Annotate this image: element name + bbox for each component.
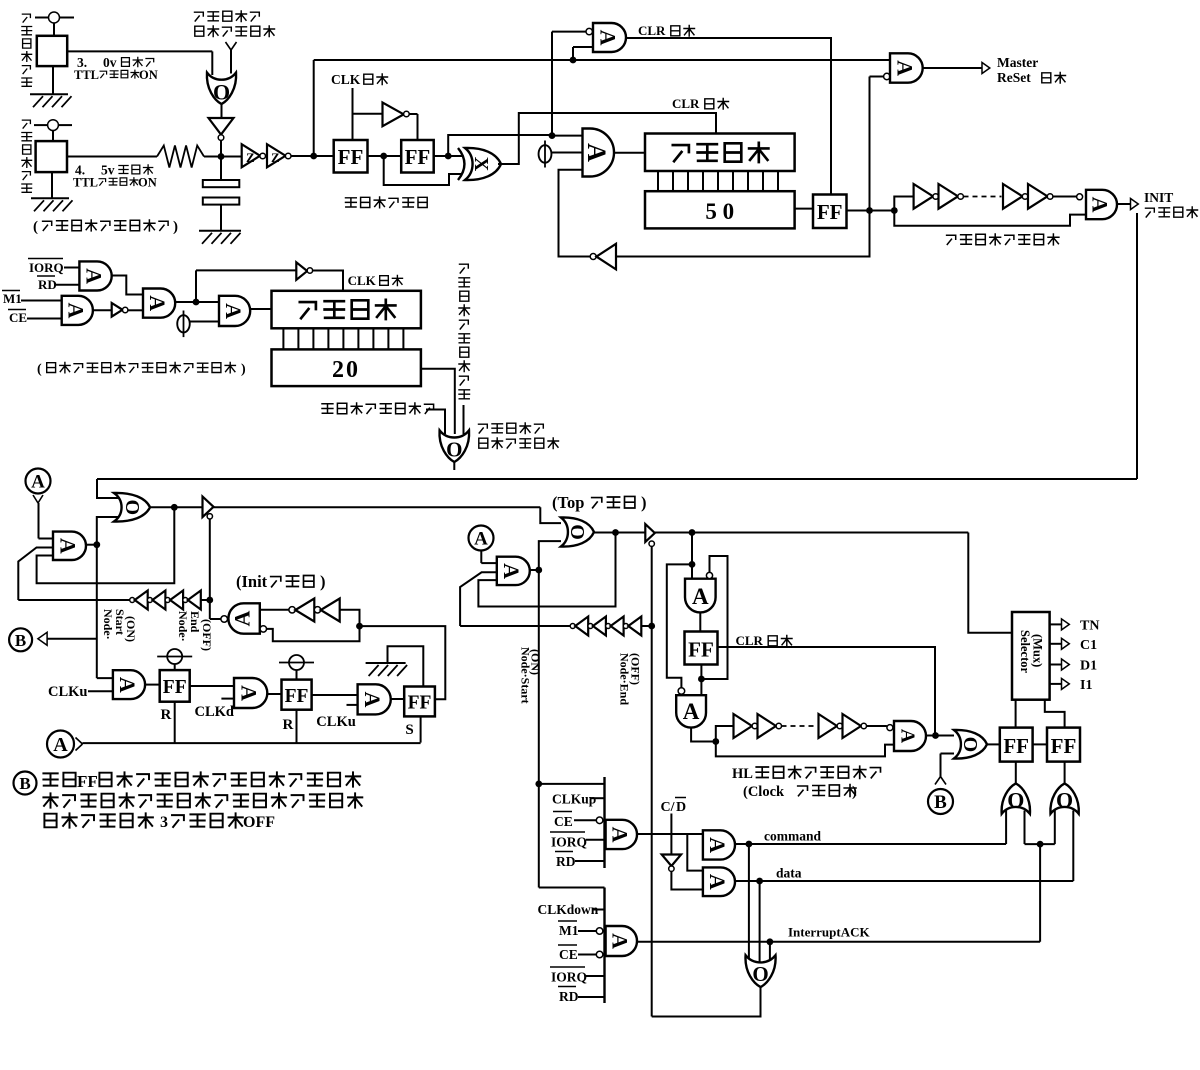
tri-state buffer G29 (end node driver) <box>645 524 655 542</box>
counter box 20 lower <box>272 349 421 386</box>
label system reset signal (top) <box>195 11 260 22</box>
buffer chain B13-B16 (HL delay) <box>734 714 753 738</box>
flip-flop E5 <box>282 680 312 710</box>
xor-gate G6 change detect <box>465 148 501 180</box>
svg-text:A: A <box>705 837 730 853</box>
wire G18 input2 from buffer chain <box>18 548 53 601</box>
wire E5 R to A rail <box>296 710 298 743</box>
and-gate G18 start latch <box>53 532 86 560</box>
svg-text:5v: 5v <box>101 163 115 178</box>
svg-text:A: A <box>499 563 524 579</box>
wire OR input tie junction <box>1025 843 1055 845</box>
wire start driver to top OR input1 <box>540 507 561 523</box>
svg-text:TTL: TTL <box>73 176 98 190</box>
flip-flop E7 <box>685 632 718 665</box>
wire vertical x552 to AND input <box>551 32 553 136</box>
buffer G15 (CLK out) <box>296 262 307 280</box>
svg-text:Node·: Node· <box>101 609 115 640</box>
and-gate G27 top latch <box>497 557 530 585</box>
wire counter 20 output to OR G17 <box>421 369 455 434</box>
wire G40 output to end-node line <box>652 987 761 1016</box>
wire E6 S to A rail <box>420 716 422 742</box>
node B note circle <box>14 772 37 795</box>
capacitor C1 plates <box>220 157 222 181</box>
wire G7 input1 <box>552 135 583 137</box>
svg-text:C/: C/ <box>661 800 676 815</box>
wire node up to CLR nand rail <box>313 60 315 156</box>
wire G17 output <box>453 462 455 470</box>
svg-text:O: O <box>566 524 588 540</box>
wire E2 output up to AND G7 input <box>448 135 552 156</box>
and-gate G32 HL output <box>894 721 926 751</box>
svg-text:A: A <box>683 699 700 724</box>
svg-text:(OFF): (OFF) <box>629 653 643 685</box>
counter ticks <box>658 171 778 191</box>
note text line2 <box>43 793 362 807</box>
selector box (Mux) <box>1012 612 1050 700</box>
svg-text:CLR: CLR <box>672 96 700 111</box>
or-gate G34 (up) command set <box>1002 783 1030 813</box>
svg-text:HL: HL <box>732 766 753 782</box>
wire ground to FF E6 top <box>388 646 424 686</box>
ground comparator U2 <box>51 172 53 198</box>
svg-text:5 0: 5 0 <box>705 199 734 224</box>
preset circle FF E4 <box>167 649 182 664</box>
svg-text:A: A <box>237 685 262 701</box>
svg-text:CLK: CLK <box>331 72 361 87</box>
label voltage abnormal reset <box>322 403 434 414</box>
svg-text:X: X <box>470 157 492 172</box>
or-gate G40 (down) busy <box>745 955 775 987</box>
svg-text:D1: D1 <box>1080 659 1097 674</box>
svg-text:CLKup: CLKup <box>552 792 596 807</box>
svg-text:O: O <box>121 500 143 516</box>
inverter G42 feedback (left) <box>590 254 596 260</box>
svg-text:S: S <box>405 722 413 738</box>
inverter pair G22 G23 (init) <box>260 609 289 611</box>
svg-text:A: A <box>582 143 611 162</box>
svg-text:(Init: (Init <box>236 572 268 591</box>
buffer G3 Z-type 1 <box>242 144 260 167</box>
wire inverters to init junction <box>340 610 360 626</box>
flip-flop E3 <box>813 195 847 229</box>
wire E5 to and-gate G26 <box>312 694 358 696</box>
wire branch strobe to data gate <box>687 834 703 871</box>
svg-text:command: command <box>764 829 821 844</box>
wire G27 input2 from end chain <box>460 572 497 626</box>
wire G14 output junction <box>175 301 219 303</box>
wire G27 output junction <box>530 569 539 571</box>
svg-text:FF: FF <box>338 145 364 169</box>
label change detect circuit <box>346 197 428 208</box>
svg-text:IORQ: IORQ <box>551 835 587 850</box>
svg-text:Master: Master <box>997 55 1038 70</box>
svg-text:A: A <box>893 60 918 76</box>
wire init junction to FF E6 right side <box>360 626 446 699</box>
svg-text:INIT: INIT <box>1144 190 1173 205</box>
resistor R1 <box>157 146 204 168</box>
flip-flop E4 <box>160 670 190 702</box>
svg-text:(OFF): (OFF) <box>200 619 214 651</box>
svg-text:A: A <box>1088 197 1113 213</box>
svg-text:CLR: CLR <box>638 23 666 38</box>
svg-text:ON: ON <box>138 176 157 190</box>
svg-text:M1: M1 <box>3 291 22 306</box>
node A connector (top left) <box>26 469 51 494</box>
wire G29 output to HL section <box>655 532 969 534</box>
svg-text:A: A <box>221 303 246 319</box>
comparator U2 box <box>36 141 67 172</box>
svg-text:(Top: (Top <box>552 493 584 512</box>
wire E3 out up to master gate bubble <box>869 77 871 211</box>
input connector system reset <box>226 42 232 50</box>
or-gate G17 system reset generator <box>439 430 469 462</box>
wire G21 output to end-node line <box>210 618 221 620</box>
wire E4 to and-gate G25 <box>190 685 234 687</box>
label one-shot circuit <box>947 234 1059 245</box>
ground capacitor C1 <box>220 205 222 231</box>
svg-text:R: R <box>283 717 294 733</box>
nand-gate G8 CLR generator <box>593 23 626 52</box>
wire E3 output to inverter G42 <box>616 211 870 257</box>
svg-text:I1: I1 <box>1080 678 1092 693</box>
svg-text:CLKd: CLKd <box>195 704 235 720</box>
svg-text:FF: FF <box>77 772 98 791</box>
or-gate G28 top node <box>561 517 594 546</box>
wire one-shot feedback <box>894 211 1086 226</box>
wire main rail y60 <box>314 59 890 61</box>
and-gate G41 interrupt ack <box>606 926 637 956</box>
svg-text:RD: RD <box>38 277 57 292</box>
svg-text:R: R <box>161 707 172 723</box>
wire interruptACK down to OR G40 <box>769 942 771 963</box>
svg-text:FF: FF <box>405 145 431 169</box>
label command reset signal (vertical) <box>459 264 470 399</box>
svg-text:A: A <box>229 610 254 626</box>
selector output D1 <box>1050 664 1062 666</box>
svg-text:FF: FF <box>688 638 714 662</box>
comparator U2 input terminal circle <box>48 120 59 131</box>
and-gate G24 <box>113 670 145 699</box>
counter box 50 lower <box>645 191 795 228</box>
comparator U1 input terminal circle <box>49 12 60 23</box>
wire resistor to node <box>204 156 221 158</box>
wire G29 enable long line down <box>651 546 653 1016</box>
inverter chain B9-B12 (end node) <box>460 625 570 627</box>
wire G16 to counter 20 <box>250 308 271 310</box>
svg-text:A: A <box>53 734 68 756</box>
counter box 20 upper <box>272 291 421 329</box>
wire start-node into strobe rails <box>535 781 542 788</box>
and-gate G36 command strobe <box>606 820 637 849</box>
wire G20 enable down to end-node line <box>209 519 211 600</box>
wire E7 CLR output <box>718 647 936 735</box>
svg-text:A: A <box>474 529 488 550</box>
svg-text:CLKu: CLKu <box>48 684 88 700</box>
node A connector (top node) <box>469 526 494 551</box>
selector output I1 <box>1050 683 1062 685</box>
wire selector to FF E9 clock <box>1045 700 1065 728</box>
svg-text:O: O <box>446 438 462 462</box>
flip-flop E8 command mode <box>1000 728 1033 762</box>
phi symbol (terminal) <box>183 311 185 338</box>
wire junction down to B arrow and CLKu gate <box>96 545 98 678</box>
wire CLR signal to FF E3 top <box>626 38 831 195</box>
svg-text:CLR: CLR <box>736 633 764 648</box>
inverter G5 (CLK delay) <box>383 103 404 127</box>
wire junction to HL chain <box>716 726 734 742</box>
or-gate G35 (up) data set <box>1050 783 1078 813</box>
flip-flop E2 <box>401 140 434 173</box>
wire B arrow to start line <box>47 638 97 640</box>
flip-flop E6 <box>404 687 435 717</box>
svg-text:Selector: Selector <box>1018 630 1032 673</box>
wire A to and-gate G27 <box>480 551 482 564</box>
wire G35 output to E9 <box>1064 762 1066 784</box>
note text line3 <box>44 813 153 827</box>
wire G37 to data gate <box>671 871 703 889</box>
wire A to and-gate G18 <box>38 503 40 539</box>
wire selector to FF E8 clock <box>1015 700 1017 728</box>
note text line1 <box>43 773 75 787</box>
wire A rail <box>83 742 421 744</box>
svg-text:): ) <box>852 784 857 800</box>
wire nand G8 input2 from rail <box>572 47 574 60</box>
svg-text:(ON): (ON) <box>529 649 543 675</box>
svg-text:3: 3 <box>160 814 168 831</box>
svg-text:A: A <box>596 30 621 46</box>
wire G32 output junction <box>926 735 954 737</box>
wire comparator U2 output <box>67 156 157 158</box>
wire G12 to inverter G13 <box>93 309 112 311</box>
svg-text:O: O <box>752 962 768 986</box>
and-gate G14 <box>143 289 175 318</box>
wire nand G8 input1 from node line <box>552 31 586 33</box>
svg-text:(: ( <box>33 219 38 235</box>
svg-text:): ) <box>641 493 647 512</box>
and-gate G38 command <box>703 830 735 859</box>
and-gate G16 <box>219 296 250 326</box>
svg-text:20: 20 <box>332 357 360 383</box>
svg-text:O: O <box>959 737 981 753</box>
wire G33 to FF E8 <box>987 743 1000 745</box>
svg-text:FF: FF <box>285 686 309 707</box>
svg-text:FF: FF <box>1003 734 1029 758</box>
svg-text:data: data <box>776 866 802 881</box>
buffer G4 Z-type 2 <box>267 144 286 167</box>
svg-text:): ) <box>241 362 246 377</box>
wire junction up to CLK buffer G15 <box>195 270 197 302</box>
wire INIT down to bottom rail <box>1136 213 1138 479</box>
wire voltage abnormal to OR G17 <box>426 410 445 435</box>
svg-text:(Clock: (Clock <box>743 784 785 800</box>
svg-text:A: A <box>705 874 730 890</box>
label system reset signal (mid) <box>479 423 544 434</box>
wire to FF E1 with junction <box>291 155 334 157</box>
wire G11 output to G14 <box>112 276 143 295</box>
wire G18 input3 feedback loop <box>37 507 175 583</box>
and-gate G7 counter enable <box>583 129 615 177</box>
wire E4 R to A rail <box>174 702 176 743</box>
svg-text:D: D <box>676 800 686 815</box>
or-gate G33 <box>954 730 987 759</box>
or-gate G1 system reset (down) <box>207 73 236 105</box>
wire G30 bubble input from right loop <box>701 556 727 679</box>
wire E2 output to XOR <box>434 155 462 157</box>
wire junction down to CLKup groups (start node line) <box>538 570 540 784</box>
one-shot buffer chain B1-B4 <box>894 197 913 211</box>
or-gate G19 <box>114 493 150 522</box>
input rail upper group <box>603 777 605 868</box>
node power-on junction <box>218 153 225 160</box>
and-gate G26 <box>358 684 391 714</box>
wire G34 inputs <box>1005 811 1007 845</box>
svg-text:CLKdown: CLKdown <box>538 902 599 917</box>
wire command down to OR G40 <box>748 844 750 962</box>
comparator U1 label (vertical text) <box>22 14 32 86</box>
svg-text:A: A <box>115 677 140 693</box>
svg-text:FF: FF <box>408 693 432 714</box>
wire G7 input3 from one-shot inverter <box>559 170 591 257</box>
wire comparator U1 output to OR G1 <box>67 50 212 52</box>
svg-text:OFF: OFF <box>243 814 275 831</box>
inverter chain B5-B8 (start node) <box>18 599 130 601</box>
svg-text:B: B <box>15 631 26 650</box>
counter box 50 upper <box>645 134 795 172</box>
wire junction feedback to G32 <box>716 742 894 757</box>
wire junction to XOR lower input <box>384 156 462 185</box>
svg-text:B: B <box>934 792 947 813</box>
wire G35 inputs <box>1054 811 1056 845</box>
inverter G13 <box>112 303 123 317</box>
svg-text:RD: RD <box>559 989 579 1004</box>
wire G1 output <box>221 104 223 118</box>
wire G34 output to E8 <box>1015 762 1017 784</box>
wire G28 output <box>594 532 645 534</box>
wire C/D down <box>670 814 672 855</box>
and-gate G31 (down) with bubble <box>676 695 706 727</box>
svg-text:A: A <box>692 584 709 609</box>
wire G25 to FF E5 <box>267 693 281 695</box>
flip-flop E1 <box>334 140 368 173</box>
wire junction down to InterruptACK <box>1039 844 1041 942</box>
wire left loop (HL latch) <box>667 564 692 687</box>
and-gate G12 <box>62 296 93 325</box>
wire G36 output to gates <box>637 833 703 835</box>
inverter G2 (down) with bubble <box>209 118 234 135</box>
wire long horizontal rail y479 <box>97 478 1137 480</box>
svg-text:Z: Z <box>246 150 255 165</box>
wire CLK to FF E1 <box>352 88 354 140</box>
svg-text:IORQ: IORQ <box>29 260 64 275</box>
svg-text:(: ( <box>37 362 42 377</box>
counter 20 ticks <box>283 328 403 349</box>
svg-text:O: O <box>1056 787 1073 812</box>
wire comparator U1 input to box <box>53 23 55 36</box>
svg-text:): ) <box>320 572 326 591</box>
and-gate G30 (down) with bubble <box>685 579 716 613</box>
svg-text:B: B <box>19 774 30 793</box>
svg-text:C1: C1 <box>1080 638 1097 653</box>
input rail lower group <box>603 888 605 1004</box>
selector output C1 <box>1050 643 1062 645</box>
svg-text:FF: FF <box>163 677 187 698</box>
wire command output <box>735 843 1006 845</box>
svg-text:CE: CE <box>9 310 27 325</box>
ground comparator U1 <box>52 66 54 94</box>
svg-text:Node·: Node· <box>176 611 190 642</box>
wire E8 to E9 <box>1033 743 1047 745</box>
svg-text:CE: CE <box>554 814 573 829</box>
svg-text:FF: FF <box>817 200 843 224</box>
nand-gate G21 init latch (left) <box>228 603 259 633</box>
svg-text:0v: 0v <box>103 55 117 70</box>
wire E3 output <box>847 210 895 212</box>
wire G18 output junction <box>86 544 97 546</box>
wire data output <box>735 880 1073 882</box>
svg-text:ON: ON <box>139 68 158 82</box>
ground G4 (FF set) <box>366 662 406 664</box>
svg-text:A: A <box>31 472 45 493</box>
wire command reset to OR G17 <box>463 405 465 434</box>
wire B to OR G33 input2 <box>940 754 942 777</box>
svg-text:TTL: TTL <box>74 68 99 82</box>
svg-text:InterruptACK: InterruptACK <box>788 925 870 940</box>
wire rail corner to OR G19 input1 <box>97 479 118 498</box>
wire counter 50 to FF E3 <box>795 208 813 210</box>
flip-flop E9 data mode <box>1047 728 1080 762</box>
and-gate G10 one-shot <box>1086 190 1117 219</box>
and-gate G9 master reset <box>890 53 923 82</box>
svg-text:CLKu: CLKu <box>316 714 356 730</box>
wire E7 bottom junction <box>700 665 702 696</box>
wire top-node to selector <box>968 533 1012 633</box>
wire G10 output to INIT arrow <box>1117 203 1131 205</box>
svg-text:RD: RD <box>556 854 576 869</box>
and-gate G11 <box>79 261 111 290</box>
svg-text:Z: Z <box>271 150 280 165</box>
svg-text:A: A <box>608 933 633 949</box>
node B connector (HL) <box>928 789 953 814</box>
wire junction up to OR G19 input2 <box>97 517 118 545</box>
wire G20 output to top-node OR <box>214 506 541 508</box>
selector output TN <box>1050 623 1062 625</box>
svg-text:O: O <box>213 79 230 104</box>
svg-text:CLK: CLK <box>348 273 377 288</box>
phi symbol (counter clock) <box>544 141 546 168</box>
node A connector (rail) <box>47 731 74 758</box>
svg-text:IORQ: IORQ <box>551 970 587 985</box>
svg-text:A: A <box>56 538 81 554</box>
wire G31 output junction <box>691 728 716 742</box>
svg-text:FF: FF <box>1051 734 1077 758</box>
svg-text:CE: CE <box>559 947 578 962</box>
svg-text:O: O <box>1007 787 1024 812</box>
wire data down to OR G40 <box>759 881 761 964</box>
node B connector (left) <box>9 628 32 651</box>
svg-text:A: A <box>360 691 385 707</box>
wire G15 to counter top (CLK) <box>313 271 343 291</box>
svg-text:A: A <box>82 268 107 284</box>
svg-text:ReSet: ReSet <box>997 70 1031 85</box>
wire top node junction down <box>691 533 693 579</box>
wire G9 output to arrow <box>923 67 982 69</box>
svg-text:(ON): (ON) <box>124 616 138 642</box>
svg-text:A: A <box>608 827 633 843</box>
svg-text:A: A <box>897 729 919 744</box>
inverter G37 (C/D) <box>662 855 681 867</box>
comparator U1 box <box>37 36 67 66</box>
